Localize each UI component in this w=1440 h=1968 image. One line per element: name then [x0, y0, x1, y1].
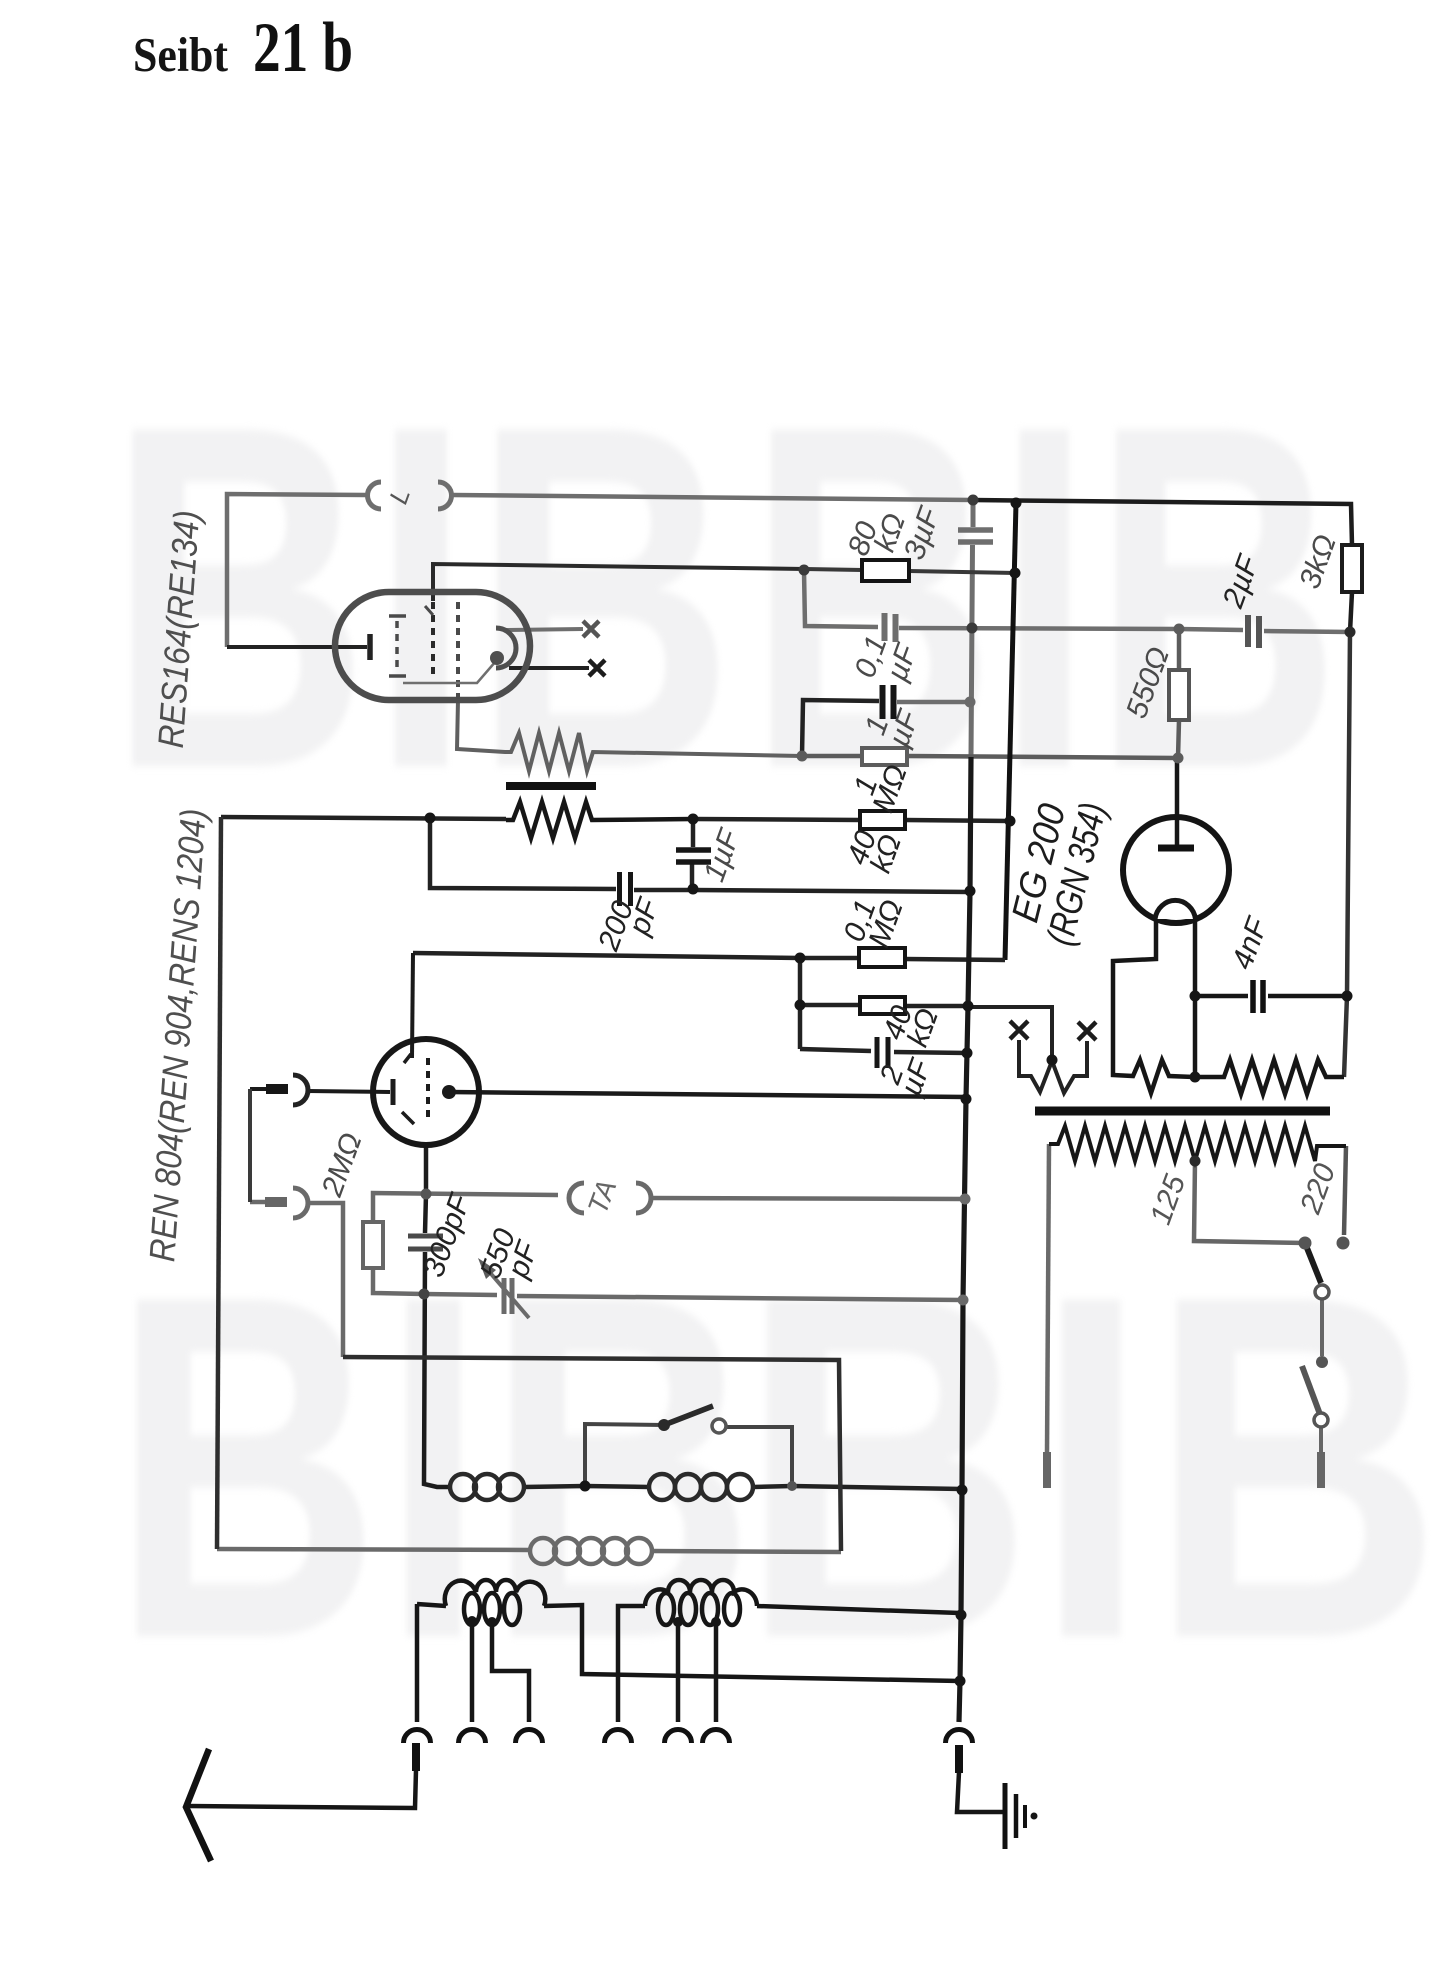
svg-text:Seibt: Seibt: [133, 27, 229, 82]
svg-text:21 b: 21 b: [253, 9, 353, 87]
svg-text:REN 804(REN 904,RENS 1204): REN 804(REN 904,RENS 1204): [141, 807, 214, 1263]
svg-text:3µF: 3µF: [898, 502, 947, 564]
svg-text:RES164(RE134): RES164(RE134): [150, 509, 208, 749]
svg-text:L: L: [383, 484, 416, 508]
svg-text:MΩ: MΩ: [866, 761, 913, 817]
svg-text:4nF: 4nF: [1226, 912, 1275, 973]
svg-text:1µF: 1µF: [698, 824, 747, 886]
svg-text:2MΩ: 2MΩ: [315, 1129, 368, 1202]
svg-text:3kΩ: 3kΩ: [1293, 530, 1343, 593]
svg-text:2µF: 2µF: [1216, 550, 1266, 613]
svg-text:220: 220: [1294, 1159, 1343, 1219]
svg-text:TA: TA: [582, 1176, 623, 1218]
svg-text:µF: µF: [882, 705, 926, 752]
svg-text:µF: µF: [894, 1054, 938, 1101]
svg-text:125: 125: [1144, 1170, 1192, 1229]
